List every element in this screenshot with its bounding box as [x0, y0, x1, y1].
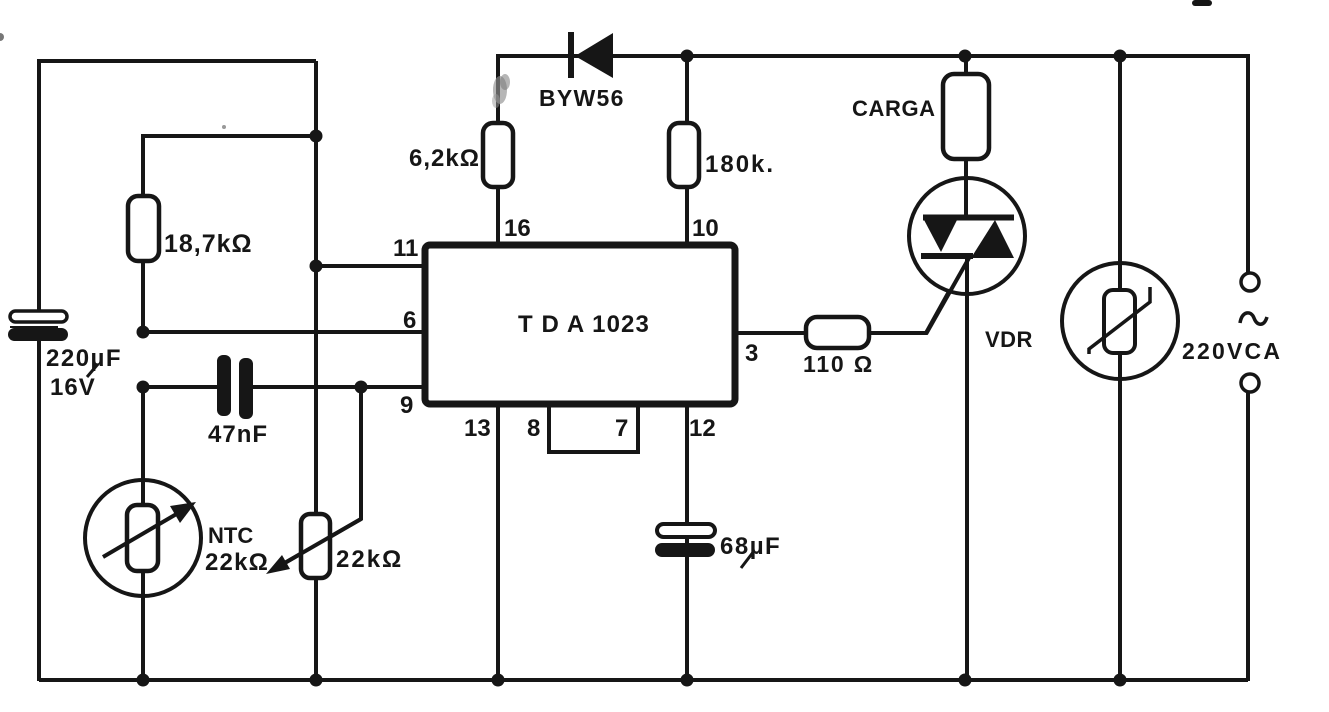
svg-text:47nF: 47nF [208, 421, 268, 448]
svg-text:18,7kΩ: 18,7kΩ [164, 230, 253, 258]
svg-text:T D A 1023: T D A 1023 [518, 311, 650, 338]
svg-text:CARGA: CARGA [852, 96, 936, 121]
svg-text:12: 12 [689, 415, 716, 442]
svg-text:9: 9 [400, 392, 413, 419]
svg-text:220VCA: 220VCA [1182, 338, 1282, 364]
svg-text:6,2kΩ: 6,2kΩ [409, 145, 480, 172]
svg-text:6: 6 [403, 307, 416, 334]
svg-text:16V: 16V [50, 374, 96, 401]
svg-text:22kΩ: 22kΩ [336, 546, 403, 573]
svg-text:13: 13 [464, 415, 491, 442]
svg-text:10: 10 [692, 215, 719, 242]
svg-text:16: 16 [504, 215, 531, 242]
svg-text:110 Ω: 110 Ω [803, 351, 874, 377]
svg-text:180k.: 180k. [705, 151, 775, 178]
svg-text:7: 7 [615, 415, 628, 442]
svg-text:68µF: 68µF [720, 533, 781, 560]
svg-text:220µF: 220µF [46, 345, 122, 372]
svg-text:VDR: VDR [985, 327, 1033, 352]
svg-text:11: 11 [393, 235, 418, 262]
svg-text:3: 3 [745, 340, 758, 367]
svg-text:8: 8 [527, 415, 540, 442]
svg-text:NTC: NTC [208, 523, 253, 548]
svg-text:22kΩ: 22kΩ [205, 549, 269, 576]
svg-text:BYW56: BYW56 [539, 85, 625, 111]
